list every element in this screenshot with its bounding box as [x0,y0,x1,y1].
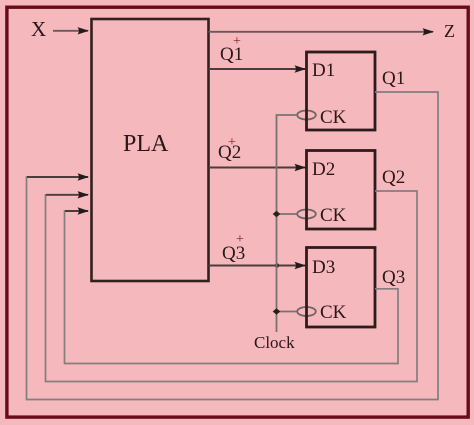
junction at D3 CK [273,308,281,314]
wire Z output [209,31,434,33]
svg-text:Z: Z [444,21,455,41]
svg-text:Q1: Q1 [382,68,405,89]
wire PLA to D3 [209,265,306,267]
svg-text:Clock: Clock [254,333,295,352]
CK bubble of D2 [297,210,316,219]
svg-text:PLA: PLA [123,131,169,157]
wire clock stub to D2 CK [277,213,298,215]
flip-flop D2 [307,151,376,230]
wire clock vertical [277,115,298,332]
svg-text:+: + [236,232,244,247]
flip-flop D1 [307,52,376,130]
wire clock stub to D3 CK [277,311,298,313]
flip-flop D3 [307,248,376,328]
svg-text:CK: CK [320,107,347,128]
wire Q3 feedback [65,211,399,364]
wire Q3 feedback arrow into PLA [65,210,88,212]
svg-text:X: X [31,17,46,41]
svg-text:+: + [228,135,236,150]
svg-text:D3: D3 [312,257,335,278]
CK bubble of D1 [297,111,316,120]
wire X input arrow [53,30,88,32]
wire PLA to D2 [209,167,306,169]
svg-text:Q2: Q2 [382,167,405,188]
svg-text:CK: CK [320,302,347,323]
wire Q1 feedback arrow into PLA [27,176,88,178]
wire Q2 feedback [46,191,418,382]
junction at D2 CK [273,211,281,217]
wire PLA to D1 [209,68,306,70]
svg-text:Q3: Q3 [382,267,405,288]
wire Q2 feedback arrow into PLA [46,194,88,196]
svg-text:D1: D1 [312,60,335,81]
CK bubble of D3 [297,307,316,316]
svg-text:+: + [233,34,241,49]
svg-text:D2: D2 [312,159,335,180]
junction on clock crossing [275,263,279,267]
svg-text:CK: CK [320,205,347,226]
wire Q1 feedback [27,92,439,400]
PLA U1 [92,19,209,281]
